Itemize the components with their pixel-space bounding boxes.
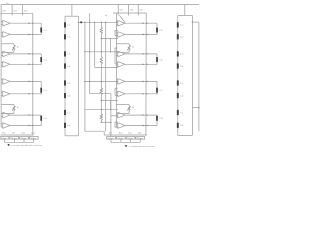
resistor R3 xyxy=(100,88,102,95)
op-amp IC4c xyxy=(118,112,125,118)
capacitor C4 bracket xyxy=(40,115,42,126)
input stub wires xyxy=(116,79,117,81)
left trimmer rail xyxy=(1,134,34,136)
input stub wires xyxy=(1,113,3,115)
resistor R2 xyxy=(100,57,102,65)
input stub wires xyxy=(1,123,3,125)
divider chain xyxy=(100,22,102,27)
diagonal wire xyxy=(119,15,125,22)
power rail +V xyxy=(1,4,199,6)
preset trimmer 1k4 xyxy=(117,137,126,140)
left LED ladder frame xyxy=(64,16,66,136)
wire RV4 to IC input xyxy=(128,111,130,114)
input stub wires xyxy=(1,91,3,93)
input stub wires xyxy=(1,62,3,64)
preset trimmer 1k0 xyxy=(0,137,9,140)
LED D11 xyxy=(177,51,179,56)
wire xyxy=(94,22,96,67)
op-amp IC2d xyxy=(3,123,10,129)
right connector pin 3 xyxy=(137,5,139,16)
op-amp IC3d xyxy=(118,62,125,68)
wiper drop wire xyxy=(33,138,35,142)
node ladder to middle xyxy=(78,22,79,23)
wire xyxy=(103,131,105,135)
preset trimmer 1k1 xyxy=(107,137,116,140)
tap jog wire A xyxy=(101,37,118,39)
LED D4 xyxy=(64,63,66,68)
right edge wire xyxy=(198,22,200,131)
op-amp IC1b xyxy=(3,32,10,38)
feedback jog 4 xyxy=(114,122,116,127)
left connector pin 2 xyxy=(11,5,13,16)
LED D2 xyxy=(64,34,66,39)
output wire op 6 xyxy=(10,93,41,95)
input stub wires xyxy=(116,113,117,115)
terminal square xyxy=(80,21,82,23)
wiper drop wire xyxy=(13,138,15,142)
LED D10 xyxy=(177,34,179,39)
op-amp IC1a xyxy=(3,20,10,26)
wire RV2 to IC input xyxy=(13,111,15,114)
bottom link wire xyxy=(85,130,104,132)
op-amp IC1c xyxy=(3,51,10,57)
feedback jog 3 xyxy=(114,88,116,95)
LED D14 xyxy=(177,93,179,98)
wire xyxy=(110,94,112,137)
preset trimmer 1k7 xyxy=(10,137,19,140)
output wire op 15 xyxy=(125,114,157,116)
wire to RV3 xyxy=(116,43,129,45)
right trimmer rail xyxy=(104,134,147,136)
svg-text:2k2 set: 2k2 set xyxy=(30,137,36,140)
capacitor C7 bracket xyxy=(156,81,158,94)
feedback jog 1 xyxy=(114,30,116,35)
output wire op 9 xyxy=(125,22,157,24)
right LED ladder frame xyxy=(177,16,179,136)
input stub wires xyxy=(1,79,3,81)
preset trimmer 1k4 xyxy=(136,137,145,140)
LED D16 xyxy=(177,123,179,128)
svg-text:= common ground/earth connecti: = common ground/earth connection xyxy=(11,144,43,147)
trimmer RV1 xyxy=(13,45,15,50)
input stub wires xyxy=(1,21,3,23)
output wire op 8 xyxy=(10,125,41,127)
tap jog wire B xyxy=(101,100,118,102)
LED D6 xyxy=(64,93,66,98)
resistor R4 xyxy=(100,114,102,121)
LED D9 xyxy=(177,22,179,27)
input stub wires xyxy=(116,62,117,64)
left input chain wire xyxy=(0,13,2,127)
input stub wires xyxy=(116,91,117,93)
op-amp IC2a xyxy=(3,79,10,85)
resistor R1 xyxy=(100,27,102,34)
preset trimmer 1k1 xyxy=(126,137,135,140)
input stub wires xyxy=(116,32,117,34)
middle vertical 2 xyxy=(89,13,91,93)
svg-text:2k2 set: 2k2 set xyxy=(21,137,27,140)
op-amp IC3b xyxy=(118,32,125,38)
svg-text:2k2 set: 2k2 set xyxy=(127,137,133,140)
wiper drop wire xyxy=(139,138,141,142)
capacitor C8 bracket xyxy=(156,115,158,126)
node ladder right xyxy=(192,21,193,22)
output wire op 4 xyxy=(10,63,41,65)
op-amp IC1d xyxy=(3,62,10,68)
op-amp IC2b xyxy=(3,91,10,97)
op-amp IC2c xyxy=(3,112,10,118)
LED D7 xyxy=(64,110,66,115)
left connector pin 1 xyxy=(0,5,2,16)
ladder supply stub xyxy=(184,5,186,16)
right input chain wire xyxy=(115,13,117,127)
capacitor C2 bracket xyxy=(40,54,42,65)
tap wire 3 xyxy=(85,108,118,110)
output wire op 11 xyxy=(125,53,157,55)
LED D13 xyxy=(177,80,179,85)
svg-text:= common ground connection: = common ground connection xyxy=(128,145,154,148)
input stub wires xyxy=(1,51,3,53)
output wire op 10 xyxy=(125,33,157,35)
wire stub xyxy=(105,22,107,131)
op-amp IC4d xyxy=(118,123,125,129)
svg-text:1k: 1k xyxy=(105,15,107,17)
output wire op 3 xyxy=(10,53,41,55)
LED D8 xyxy=(64,123,66,128)
op-amp IC4b xyxy=(118,91,125,97)
left ground legend xyxy=(7,144,10,146)
ground link wire xyxy=(111,141,140,143)
output wire op 7 xyxy=(10,114,41,116)
LED D3 xyxy=(64,51,66,56)
trimmer RV3 xyxy=(128,45,130,50)
capacitor C1 bracket xyxy=(40,23,42,34)
wiper drop wire xyxy=(4,138,6,142)
left connector pin 3 xyxy=(22,5,24,16)
tap wire 1 xyxy=(85,51,118,53)
ladder supply stub xyxy=(71,5,73,17)
capacitor C5 bracket xyxy=(156,23,158,34)
input stub wires xyxy=(116,51,117,53)
LED D12 xyxy=(177,63,179,68)
left input connector rail xyxy=(1,12,33,14)
trimmer RV4 xyxy=(128,106,130,111)
output wire op 5 xyxy=(10,80,41,82)
chain bottom wire xyxy=(101,121,111,123)
wire tap xyxy=(192,107,199,109)
wiper drop wire xyxy=(130,138,132,142)
tap wire 2 xyxy=(85,81,118,83)
wire to RV4 xyxy=(116,104,129,106)
wiper drop wire xyxy=(23,138,25,142)
trimmer RV2 xyxy=(13,106,15,111)
right ground legend xyxy=(125,145,128,147)
left output bus xyxy=(32,13,34,135)
wire RV3 to IC input xyxy=(128,50,130,52)
svg-text:2k2 set: 2k2 set xyxy=(1,137,7,140)
capacitor C6 bracket xyxy=(156,54,158,65)
output wire op 2 xyxy=(10,33,41,35)
svg-text:2k2 set: 2k2 set xyxy=(11,137,17,140)
right connector pin 2 xyxy=(128,5,130,16)
output wire op 13 xyxy=(125,80,157,82)
op-amp IC3c xyxy=(118,51,125,57)
feedback jog 2 xyxy=(114,48,116,64)
preset trimmer 1k4 xyxy=(29,137,38,140)
op-amp IC3a xyxy=(118,20,125,26)
wire xyxy=(111,115,118,117)
svg-text:2k2 set: 2k2 set xyxy=(108,137,114,140)
LED D5 xyxy=(64,80,66,85)
output wire op 14 xyxy=(125,93,157,95)
preset trimmer 1k1 xyxy=(20,137,29,140)
input stub wires xyxy=(1,32,3,34)
right connector pin 1 xyxy=(117,5,119,16)
ground link wire xyxy=(5,141,34,143)
svg-text:2k2 set: 2k2 set xyxy=(118,137,124,140)
wire RV1 to IC input xyxy=(13,50,15,52)
reference wire xyxy=(82,21,118,23)
wire xyxy=(90,93,111,95)
output wire op 1 xyxy=(10,22,41,24)
LED D1 xyxy=(64,22,66,27)
wire to RV1 xyxy=(1,43,14,45)
output wire op 16 xyxy=(125,125,157,127)
svg-text:2k2 set: 2k2 set xyxy=(137,137,143,140)
wire to RV2 xyxy=(1,104,14,106)
right output bus xyxy=(145,13,147,135)
input stub wires xyxy=(116,123,117,125)
right input connector rail xyxy=(113,12,146,14)
capacitor C3 bracket xyxy=(40,81,42,94)
op-amp IC4a xyxy=(118,79,125,85)
wiper drop wire xyxy=(110,138,112,142)
middle vertical 1 xyxy=(84,22,86,131)
LED D15 xyxy=(177,110,179,115)
output wire op 12 xyxy=(125,63,157,65)
wiper drop wire xyxy=(120,138,122,142)
input stub wires xyxy=(116,21,117,23)
